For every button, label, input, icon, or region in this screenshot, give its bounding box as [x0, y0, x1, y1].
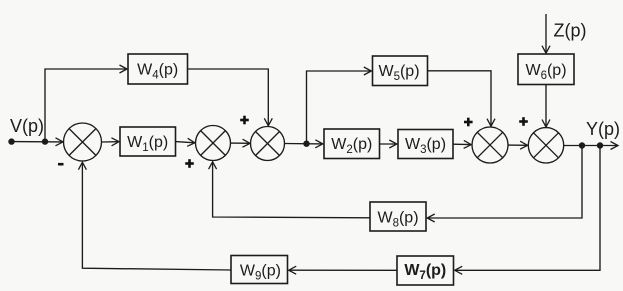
wire W4 to S3 top: [188, 69, 269, 126]
node V(p) input dot: [8, 138, 14, 144]
wire Z(p) input to W6: [545, 14, 547, 53]
node branch dot to W4: [42, 138, 48, 144]
block W1: [120, 127, 176, 156]
summing junction S2: [196, 126, 231, 161]
wire S4 to S5: [508, 144, 528, 146]
wire W6 to S5 top: [545, 85, 547, 127]
plus sign at S3: [240, 116, 249, 125]
wire branch up to W5: [307, 71, 372, 144]
wire S2 to S3: [231, 142, 251, 144]
wire W7 to W9: [289, 269, 397, 271]
node branch dot after S3: [303, 141, 309, 147]
block W2: [324, 129, 380, 159]
block W5: [373, 56, 428, 86]
block W7: [397, 256, 454, 285]
summing junction S4: [472, 127, 508, 163]
wire W5 to S4 top: [428, 71, 491, 126]
plus sign at S4: [464, 118, 473, 127]
block W9: [231, 256, 288, 284]
summing junction S5: [528, 128, 563, 163]
svg-text:Z(p): Z(p): [554, 20, 587, 40]
svg-text:Y(p): Y(p): [586, 119, 620, 139]
summing junction S1: [64, 123, 102, 161]
wire S1 to W1: [102, 141, 120, 143]
node output branch dot 2: [597, 142, 603, 148]
wire feedback to W7: [455, 146, 600, 271]
wire W1 to S2: [176, 142, 195, 143]
block W6: [518, 54, 574, 85]
wire W3 to S4: [453, 143, 471, 145]
wire feedback to W8: [427, 146, 582, 219]
wire W2 to W3: [380, 143, 397, 145]
plus sign at S5: [519, 117, 528, 126]
wire W9 to S1 bottom: [82, 162, 231, 270]
block W3: [398, 130, 453, 159]
wire V input to summing junction S1: [12, 141, 64, 143]
node output branch dot 1: [579, 142, 585, 148]
wire S5 to output Y(p): [564, 145, 618, 147]
wire W8 to S2 bottom: [213, 162, 370, 218]
block W4: [128, 54, 188, 84]
plus sign at S2: [185, 159, 194, 168]
wire S3 to W2: [285, 143, 323, 145]
wire branch up to W4: [45, 69, 127, 142]
block W8: [370, 202, 426, 231]
minus sign at S1: [58, 163, 64, 166]
svg-text:V(p): V(p): [10, 116, 44, 136]
summing junction S3: [251, 127, 285, 161]
